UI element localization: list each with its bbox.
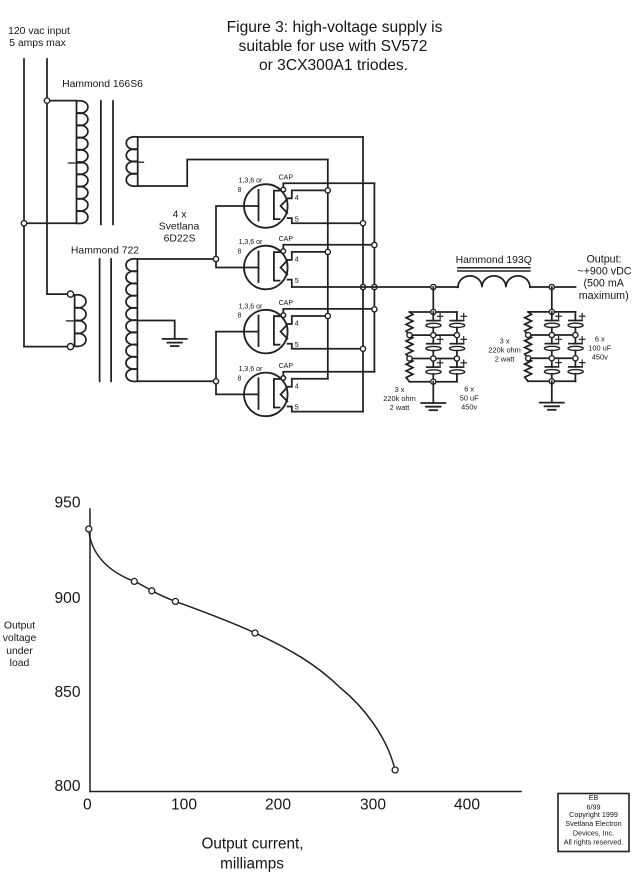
svg-text:5: 5 (295, 276, 299, 285)
tube V4 envelope (244, 373, 288, 417)
capacitor bank2 C4 (574, 312, 576, 321)
transformer T1 primary tap tick (68, 162, 83, 164)
capacitor bank2 C6 (574, 358, 576, 367)
tube V2 pin labels (238, 236, 294, 256)
graph x axis title (201, 836, 303, 873)
svg-text:950: 950 (54, 494, 80, 511)
choke L1 winding (458, 276, 530, 287)
wire bank1 mid rail 1 (410, 334, 457, 336)
data point P5 (252, 630, 258, 636)
node junction rail/bank2 (549, 284, 554, 289)
tube V3 cap terminal (281, 313, 286, 318)
wire V3 pin 4 lead (288, 316, 328, 324)
svg-text:6D22S: 6D22S (164, 233, 196, 244)
node junction input/T1 bottom (21, 221, 26, 226)
tube V1 envelope (244, 184, 288, 228)
capacitor bank2 C2 (551, 335, 553, 344)
svg-text:EB: EB (589, 793, 599, 802)
capacitor bank1 label (460, 385, 479, 412)
node junction T2 bottom / cathodes (213, 379, 218, 384)
node bus B junctions (360, 221, 365, 226)
graph x tick labels (83, 797, 480, 814)
capacitor bank2 label (588, 334, 611, 361)
svg-text:0: 0 (83, 797, 92, 814)
wire V3 cap lead (283, 309, 374, 314)
svg-text:120 vac input: 120 vac input (8, 26, 70, 37)
tube V1 pin labels (238, 174, 294, 194)
resistor bank1 label (383, 385, 415, 412)
tube V1 cap terminal (281, 187, 286, 192)
transformer T2 core (99, 259, 101, 381)
transformer T1 primary winding (77, 101, 88, 224)
tube V1 plate (274, 191, 280, 220)
svg-text:CAP: CAP (279, 300, 294, 307)
svg-text:50 uF: 50 uF (460, 394, 479, 403)
node bus C junctions (372, 242, 377, 247)
transformer T1 secondary winding (126, 137, 137, 186)
graph y tick labels (54, 494, 80, 795)
wire V2 pin 4 lead (288, 252, 328, 260)
tube V3 anode arrow (281, 325, 288, 339)
wire V4 pin 4 lead (288, 379, 328, 387)
svg-text:400: 400 (454, 797, 480, 814)
wire cap bus C (373, 183, 375, 371)
wire V3 pin 5 lead (288, 344, 363, 349)
tube V3 plate (274, 316, 280, 345)
wire T1 secondary top lead to heater bus B (138, 136, 363, 138)
ground bank2 (540, 402, 564, 404)
svg-text:Hammond 193Q: Hammond 193Q (456, 255, 532, 266)
capacitor bank1 C3 (432, 359, 434, 368)
node junction input/T1 top (44, 98, 49, 103)
svg-text:Hammond 722: Hammond 722 (71, 246, 139, 257)
svg-text:450v: 450v (461, 403, 477, 412)
data point P1 (86, 526, 92, 532)
wire cathode link V1-V2 (216, 206, 259, 268)
copyright box (558, 794, 629, 852)
svg-text:8: 8 (238, 187, 242, 194)
svg-text:200: 200 (265, 797, 291, 814)
svg-text:voltage: voltage (3, 633, 37, 644)
data point P2 (131, 578, 137, 584)
wire heater bus A (pin 4) (327, 160, 329, 379)
svg-text:Hammond 166S6: Hammond 166S6 (62, 79, 143, 90)
svg-text:5: 5 (295, 340, 299, 349)
wire bank2 top rail (528, 311, 575, 313)
svg-text:220k ohm: 220k ohm (383, 394, 415, 403)
wire bank1 top rail (410, 311, 457, 313)
wire bank2 mid rail 2 (528, 357, 575, 359)
svg-text:Output: Output (4, 620, 35, 631)
tube V3 cathode (258, 316, 260, 347)
svg-text:CAP: CAP (279, 363, 294, 370)
node junction rail/bank1 (431, 284, 436, 289)
capacitor bank1 C5 (456, 335, 458, 344)
svg-text:800: 800 (54, 778, 80, 795)
svg-text:900: 900 (54, 590, 80, 607)
svg-text:load: load (10, 658, 30, 669)
wire T1 secondary bottom lead to heater bus A (138, 160, 328, 187)
svg-text:Copyright 1999: Copyright 1999 (569, 810, 618, 819)
wire T2 secondary bottom lead (137, 380, 216, 382)
ground G1 (T2 center tap) (163, 338, 187, 340)
svg-text:6 x: 6 x (595, 334, 605, 343)
tube V2 anode arrow (281, 261, 288, 275)
svg-text:under: under (6, 646, 33, 657)
capacitor bank1 C6 (456, 359, 458, 368)
tube V4 anode arrow (281, 387, 288, 401)
choke L1 core (458, 267, 530, 269)
tube V3 envelope (244, 310, 288, 354)
resistor bank2 label (488, 337, 520, 364)
capacitor bank2 C1 (551, 312, 553, 321)
output label (577, 254, 631, 302)
tube V4 cathode (258, 378, 260, 409)
data point P4 (172, 598, 178, 604)
node bank2 top junction (549, 309, 554, 314)
svg-text:4: 4 (295, 193, 299, 202)
transformer T2 primary winding (75, 295, 86, 347)
svg-text:CAP: CAP (279, 236, 294, 243)
svg-text:4: 4 (295, 319, 299, 328)
graph x axis (90, 791, 521, 793)
node bank2 mid junctions (526, 332, 531, 337)
load curve (89, 529, 395, 770)
resistor bank2 R-a (525, 312, 532, 335)
tube V2 cap terminal (281, 249, 286, 254)
resistor bank1 R-a (406, 312, 413, 335)
svg-text:2 watt: 2 watt (495, 354, 515, 363)
svg-text:3 x: 3 x (395, 385, 405, 394)
node bus A junctions (325, 188, 330, 193)
graph y axis (89, 509, 91, 792)
svg-text:4: 4 (295, 255, 299, 264)
capacitor bank1 C1 (432, 312, 434, 321)
node bank1 bottom junction (431, 379, 436, 384)
transformer T1 core (100, 101, 102, 224)
copyright text (564, 793, 624, 847)
node bank1 top junction (431, 309, 436, 314)
wire V1 pin 4 lead (288, 190, 328, 198)
transformer T1 secondary tap tick (138, 161, 144, 163)
wire V1 pin 5 lead (288, 218, 363, 223)
tube V1 cathode (258, 190, 260, 221)
wire T2 secondary top lead (137, 258, 216, 260)
figure caption (227, 19, 443, 74)
svg-text:1,3,6 or: 1,3,6 or (239, 178, 263, 185)
svg-text:4 x: 4 x (173, 209, 188, 220)
svg-text:300: 300 (360, 797, 386, 814)
wire V4 cap lead (283, 372, 374, 377)
resistor bank1 R-b (406, 335, 413, 358)
svg-text:1,3,6 or: 1,3,6 or (239, 366, 263, 373)
svg-text:milliamps: milliamps (220, 855, 284, 872)
wire bank2 mid rail 1 (528, 334, 575, 336)
graph y axis title (3, 620, 37, 669)
svg-text:8: 8 (238, 249, 242, 256)
svg-text:8: 8 (238, 313, 242, 320)
svg-text:(500 mA: (500 mA (583, 278, 624, 290)
wire bank1 bottom rail (410, 381, 457, 383)
svg-text:3 x: 3 x (500, 337, 510, 346)
svg-text:Devices, Inc.: Devices, Inc. (573, 829, 614, 838)
resistor bank2 R-b (525, 335, 532, 358)
svg-text:6 x: 6 x (464, 385, 474, 394)
ground bank1 (421, 402, 445, 404)
svg-text:5: 5 (295, 403, 299, 412)
svg-text:5: 5 (295, 214, 299, 223)
svg-text:maximum): maximum) (579, 290, 629, 302)
svg-text:Svetlana: Svetlana (159, 222, 200, 233)
svg-text:4: 4 (295, 382, 299, 391)
capacitor bank2 C5 (574, 335, 576, 344)
svg-text:or 3CX300A1 triodes.: or 3CX300A1 triodes. (259, 57, 408, 74)
tube V4 pin labels (238, 363, 294, 383)
wire bank1 feed (432, 287, 434, 312)
resistor bank1 R-c (406, 359, 413, 382)
wire output rail (292, 286, 458, 288)
data point P3 (149, 588, 155, 594)
node bank1 mid junctions (407, 333, 412, 338)
tube V4 cap terminal (281, 376, 286, 381)
tube V4 plate (274, 379, 280, 408)
svg-text:Output current,: Output current, (201, 836, 303, 853)
svg-text:2 watt: 2 watt (390, 403, 410, 412)
svg-text:100: 100 (171, 797, 197, 814)
wire bank2 bottom rail (528, 380, 575, 382)
svg-text:8: 8 (238, 375, 242, 382)
wire bank2 ground stem (551, 381, 553, 402)
svg-text:suitable for use with SV572: suitable for use with SV572 (239, 38, 428, 55)
wire input line right (47, 59, 67, 294)
wire T1 primary top lead (47, 100, 77, 102)
terminal T2 primary bottom (67, 344, 73, 350)
svg-text:1,3,6 or: 1,3,6 or (239, 239, 263, 246)
tube V1 anode arrow (281, 199, 288, 213)
tube V2 envelope (244, 246, 288, 290)
svg-text:220k ohm: 220k ohm (488, 345, 520, 354)
wire cathode link V3-V4 (216, 332, 259, 395)
svg-text:5 amps max: 5 amps max (9, 38, 66, 49)
tube V3 pin labels (238, 300, 294, 320)
svg-text:Figure 3: high-voltage supply: Figure 3: high-voltage supply is (227, 19, 443, 36)
wire V4 pin 5 lead (288, 407, 363, 412)
svg-text:450v: 450v (592, 352, 608, 361)
capacitor bank1 C4 (456, 312, 458, 321)
wire T2 center tap to ground (137, 321, 174, 339)
svg-text:Svetlana Electron: Svetlana Electron (565, 819, 621, 828)
transformer T2 primary tap tick (67, 320, 80, 322)
data point P6 (392, 767, 398, 773)
tube V2 plate (274, 252, 280, 281)
wire V1 cap lead (283, 183, 374, 188)
transformer T2 secondary winding (126, 259, 137, 382)
svg-text:CAP: CAP (279, 174, 294, 181)
svg-text:1,3,6 or: 1,3,6 or (239, 303, 263, 310)
node bank2 bottom junction (549, 379, 554, 384)
capacitor bank2 C3 (551, 358, 553, 367)
svg-text:~+900 vDC: ~+900 vDC (577, 265, 631, 277)
wire V2 cap lead (283, 245, 374, 250)
wire heater bus B (pin 5) (362, 137, 364, 412)
wire bank1 ground stem (432, 382, 434, 403)
svg-text:850: 850 (54, 684, 80, 701)
terminal T2 primary top (67, 291, 73, 297)
wire T1 primary bottom lead (24, 222, 77, 224)
resistor bank2 R-c (525, 358, 532, 381)
wire bank1 mid rail 2 (410, 358, 457, 360)
node junction T2 top / cathodes (213, 256, 218, 261)
wire input line left (24, 59, 67, 347)
svg-text:Output:: Output: (586, 254, 621, 266)
svg-text:All rights reserved.: All rights reserved. (564, 838, 624, 847)
wire V2 pin 5 lead (288, 280, 292, 287)
wire bank2 feed (551, 287, 553, 312)
tube V2 cathode (258, 251, 260, 282)
capacitor bank1 C2 (432, 335, 434, 344)
svg-text:100 uF: 100 uF (588, 343, 611, 352)
